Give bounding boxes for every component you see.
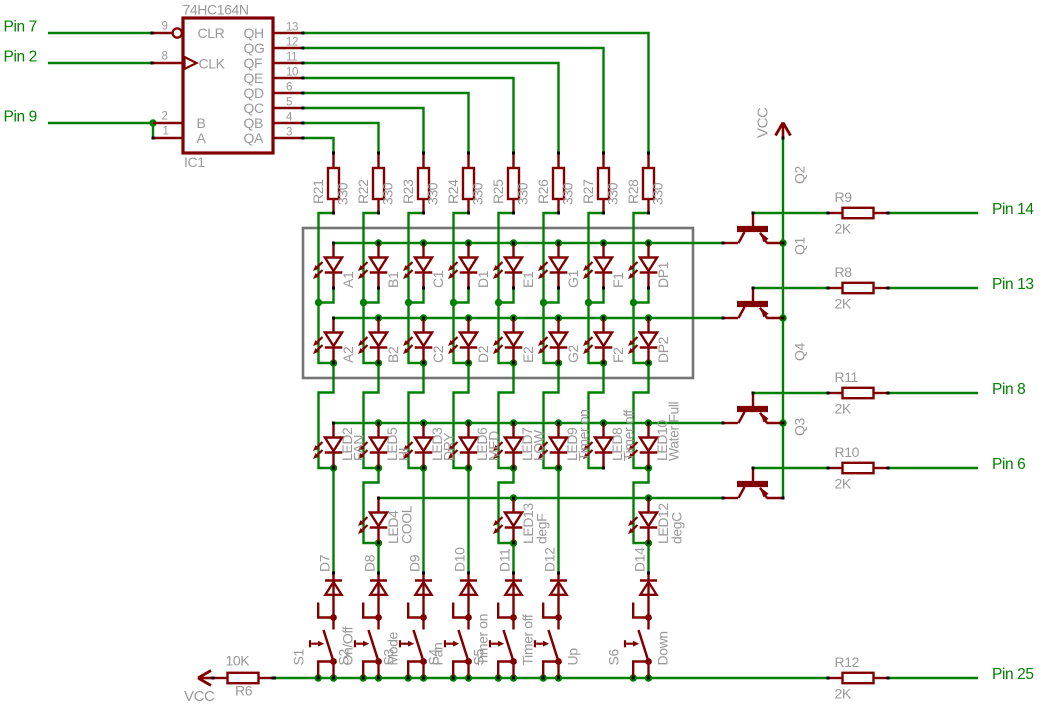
wire R25 to segment column 5: [499, 213, 514, 303]
svg-text:R26: R26: [535, 179, 551, 204]
diode D9: [415, 572, 432, 618]
LED LED5 HI: [358, 422, 387, 470]
junction segment column 5 at row4 cathode: [510, 539, 517, 546]
resistor R11: [827, 388, 890, 398]
svg-text:IC1: IC1: [184, 154, 205, 170]
wire base Q1 to R8: [753, 287, 828, 289]
wire segment column 6 row3 to diode: [557, 468, 559, 573]
svg-text:C2: C2: [430, 345, 446, 363]
wire B to A: [152, 123, 154, 138]
wire R10 to Pin 6: [888, 467, 978, 469]
junction rail at switch col2 right: [375, 674, 382, 681]
diode D11: [505, 572, 522, 618]
svg-text:A: A: [197, 130, 207, 146]
svg-text:R11: R11: [835, 369, 859, 385]
wire segment column 1 row2 to row3: [319, 363, 334, 468]
svg-text:A2: A2: [340, 346, 356, 363]
transistor Q1: [722, 287, 785, 320]
junction rail at switch col6 left: [540, 674, 547, 681]
svg-text:MED: MED: [486, 431, 502, 461]
LED LED8 Timer off: [583, 422, 612, 470]
wire segment column 3 row1 cathode jog: [409, 288, 424, 303]
junction segment column 8 at row4 cathode: [645, 539, 652, 546]
svg-text:DP1: DP1: [655, 261, 671, 288]
junction segment column 5 at row1: [495, 299, 502, 306]
svg-text:S4: S4: [426, 649, 442, 666]
svg-text:9: 9: [162, 21, 168, 33]
svg-text:S2: S2: [336, 649, 352, 666]
junction bus row1 at G1 anode: [555, 239, 562, 246]
wire R28 to segment column 8: [634, 213, 649, 303]
wire Pin7 to CLR: [48, 32, 153, 34]
svg-text:S3: S3: [381, 649, 397, 666]
svg-text:330: 330: [425, 182, 441, 205]
svg-text:CLK: CLK: [199, 56, 226, 72]
switch S4: [445, 603, 472, 680]
svg-text:S6: S6: [606, 649, 622, 666]
LED segment A1: [313, 242, 342, 290]
svg-text:R10: R10: [835, 444, 860, 460]
svg-text:R21: R21: [310, 179, 326, 204]
svg-text:Q2: Q2: [792, 166, 808, 184]
LED LED9 Timer on: [538, 422, 567, 470]
wire segment column 7 row1 to row2: [589, 303, 604, 364]
svg-text:QC: QC: [244, 100, 264, 116]
svg-text:D11: D11: [497, 548, 513, 572]
junction bus row1 at D1 anode: [465, 239, 472, 246]
LED segment F2: [583, 317, 612, 365]
svg-text:Water Full: Water Full: [666, 401, 682, 461]
junction segment column 4 at row2 cathode: [465, 359, 472, 366]
transistor Q3: [722, 467, 785, 500]
junction segment column 2 at row1: [360, 299, 367, 306]
svg-text:R22: R22: [355, 179, 371, 204]
wire QC to R23: [303, 108, 424, 153]
switch S1: [310, 603, 337, 680]
LED segment B2: [358, 317, 387, 365]
svg-text:A1: A1: [340, 271, 356, 288]
wire R21 to segment column 1: [319, 213, 334, 303]
node bus row4 anodes: [379, 497, 724, 499]
svg-text:D7: D7: [317, 554, 333, 572]
svg-text:13: 13: [286, 22, 298, 34]
svg-text:Pin 7: Pin 7: [4, 19, 37, 36]
junction bus row2 at E2 anode: [510, 314, 517, 321]
wire segment column 5 row3 to row4: [499, 468, 514, 543]
wire Pin9 to B: [48, 122, 153, 124]
LED segment C1: [403, 242, 432, 290]
junction segment column 5 at row3 cathode: [510, 464, 517, 471]
junction bus row2 at G2 anode: [555, 314, 562, 321]
LED segment DP1: [628, 242, 657, 290]
node bus row1 digit1 anodes: [334, 242, 724, 244]
resistor R6: [212, 673, 275, 683]
svg-text:R28: R28: [625, 179, 641, 204]
wire segment column 3 row2 to row3: [409, 363, 424, 468]
svg-text:D14: D14: [632, 547, 648, 572]
svg-text:DRY: DRY: [441, 432, 457, 461]
svg-text:G1: G1: [565, 270, 581, 288]
wire QB to R22: [303, 123, 379, 153]
wire segment column 3 row3 to diode: [422, 468, 424, 573]
LED LED13 degF: [493, 497, 522, 545]
node bus row3 anodes: [334, 422, 724, 424]
svg-text:FAN: FAN: [351, 435, 367, 461]
wire R22 to segment column 2: [364, 213, 379, 303]
resistor R21: [328, 152, 339, 215]
junction VCC rail at Q4 emitter: [779, 419, 786, 426]
junction rail at switch col5 left: [495, 674, 502, 681]
junction bus row2 at F2 anode: [600, 314, 607, 321]
wire segment column 8 row1 to row2: [634, 303, 649, 364]
svg-text:D12: D12: [542, 547, 558, 572]
resistor R28: [643, 152, 654, 215]
svg-text:330: 330: [560, 182, 576, 205]
svg-text:10K: 10K: [226, 653, 251, 669]
wire segment column 7 row1 cathode jog: [589, 288, 604, 303]
svg-text:QD: QD: [244, 85, 264, 101]
wire segment column 4 row1 to row2: [454, 303, 469, 364]
switch S5: [490, 603, 517, 680]
LED segment D1: [448, 242, 477, 290]
junction at pin B: [149, 119, 156, 126]
wire base Q4 to R11: [753, 392, 828, 394]
svg-text:LOW: LOW: [531, 429, 547, 461]
junction bus row2 at DP2 anode: [645, 314, 652, 321]
svg-text:2K: 2K: [835, 296, 852, 312]
svg-text:R6: R6: [235, 683, 253, 699]
svg-text:5: 5: [286, 97, 292, 109]
wire segment column 5 row4 to diode: [512, 543, 514, 573]
LED segment F1: [583, 242, 612, 290]
wire segment column 5 row2 to row3: [499, 363, 514, 468]
junction segment column 7 at row1: [585, 299, 592, 306]
svg-text:Pin 13: Pin 13: [992, 276, 1034, 293]
junction segment column 6 at row3 cathode: [555, 464, 562, 471]
svg-text:R24: R24: [445, 179, 461, 204]
power VCC left symbol: [198, 671, 213, 686]
junction bus row2 at D2 anode: [465, 314, 472, 321]
svg-text:330: 330: [515, 182, 531, 205]
diode D7: [325, 572, 342, 618]
svg-text:2: 2: [162, 111, 168, 123]
wire segment column 5 row1 to row2: [499, 303, 514, 364]
junction segment column 2 at row2 cathode: [375, 359, 382, 366]
wire QE to R25: [303, 78, 514, 153]
svg-text:VCC: VCC: [184, 688, 215, 705]
resistor R26: [553, 152, 564, 215]
junction segment column 3 at row2 cathode: [420, 359, 427, 366]
svg-text:Timer off: Timer off: [621, 410, 637, 461]
LED segment C2: [403, 317, 432, 365]
junction bus row3 at LED10 anode: [645, 419, 652, 426]
wire QA to R21: [303, 138, 334, 153]
svg-text:330: 330: [605, 182, 621, 205]
svg-text:QB: QB: [244, 115, 263, 131]
IC IC1 74HC164N shift register: [151, 18, 305, 153]
wire segment column 4 row1 cathode jog: [454, 288, 469, 303]
svg-text:2K: 2K: [835, 221, 852, 237]
wire segment column 6 row1 to row2: [544, 303, 559, 364]
junction bus row1 at C1 anode: [420, 239, 427, 246]
junction segment column 8 at row1: [630, 299, 637, 306]
wire segment column 5 row1 cathode jog: [499, 288, 514, 303]
svg-text:330: 330: [470, 182, 486, 205]
svg-text:Timer off: Timer off: [520, 614, 536, 665]
wire segment column 6 row2 to row3: [544, 363, 559, 468]
wire bottom rail: [273, 677, 828, 679]
svg-text:Pin 2: Pin 2: [4, 49, 37, 66]
svg-text:Pin 14: Pin 14: [992, 201, 1034, 218]
junction segment column 2 at row3 cathode: [375, 464, 382, 471]
junction rail at switch col6 right: [555, 674, 562, 681]
LED LED7 LOW: [493, 422, 522, 470]
LED segment G1: [538, 242, 567, 290]
resistor R10: [827, 463, 890, 473]
junction bus row1 at DP1 anode: [645, 239, 652, 246]
wire R24 to segment column 4: [454, 213, 469, 303]
svg-text:R27: R27: [580, 179, 596, 204]
wire QH to R28: [303, 33, 649, 153]
svg-text:11: 11: [286, 52, 297, 64]
junction segment column 5 at row2 cathode: [510, 359, 517, 366]
wire segment column 4 row2 to row3: [454, 363, 469, 468]
svg-text:QH: QH: [244, 25, 264, 41]
wire Pin2 to CLK: [48, 62, 153, 64]
resistor R22: [373, 152, 384, 215]
svg-text:S5: S5: [471, 649, 487, 666]
wire QF to R26: [303, 63, 559, 153]
wire R27 to segment column 7: [589, 213, 604, 303]
junction segment column 1 at row2 cathode: [330, 359, 337, 366]
wire R8 to Pin 13: [888, 287, 978, 289]
svg-text:R8: R8: [835, 264, 853, 280]
resistor R12: [827, 673, 890, 683]
junction bus row3 at LED7 anode: [510, 419, 517, 426]
junction segment column 4 at row1: [450, 299, 457, 306]
junction segment column 3 at row1: [405, 299, 412, 306]
junction rail at switch col1 right: [330, 674, 337, 681]
svg-text:330: 330: [650, 182, 666, 205]
junction VCC rail at Q2 emitter: [779, 239, 786, 246]
LED LED10 Water Full: [628, 422, 657, 470]
svg-text:8: 8: [162, 51, 168, 63]
svg-text:330: 330: [380, 182, 396, 205]
wire base Q3 to R10: [753, 467, 828, 469]
svg-text:74HC164N: 74HC164N: [183, 2, 249, 18]
wire segment column 4 row3 to diode: [467, 468, 469, 573]
junction rail at switch col4 left: [450, 674, 457, 681]
junction segment column 8 at row2 cathode: [645, 359, 652, 366]
svg-text:F2: F2: [610, 347, 626, 363]
junction segment column 3 at row3 cathode: [420, 464, 427, 471]
junction segment column 6 at row1: [540, 299, 547, 306]
svg-text:Pin 9: Pin 9: [4, 109, 37, 126]
wire segment column 6 row1 cathode jog: [544, 288, 559, 303]
diode D10: [460, 572, 477, 618]
wire segment column 2 row1 to row2: [364, 303, 379, 364]
svg-text:R9: R9: [835, 189, 853, 205]
svg-text:10: 10: [286, 67, 298, 79]
wire segment column 8 row2 to row3: [634, 363, 649, 468]
LED segment D2: [448, 317, 477, 365]
LED LED6 MED: [448, 422, 477, 470]
svg-text:degC: degC: [669, 512, 685, 544]
diode D14: [640, 572, 657, 618]
svg-text:R12: R12: [835, 654, 860, 670]
junction bus row2 at B2 anode: [375, 314, 382, 321]
junction rail at switch col2 left: [360, 674, 367, 681]
svg-text:Timer on: Timer on: [576, 409, 592, 461]
wire segment column 8 row4 to diode: [647, 543, 649, 573]
wire segment column 2 row3 to row4: [364, 468, 379, 543]
svg-text:QE: QE: [244, 70, 263, 86]
wire segment column 3 row1 to row2: [409, 303, 424, 364]
LED segment DP2: [628, 317, 657, 365]
junction segment column 2 at row4 cathode: [375, 539, 382, 546]
svg-text:B: B: [197, 115, 206, 131]
switch S2: [355, 603, 382, 680]
svg-text:12: 12: [286, 37, 298, 49]
svg-text:DP2: DP2: [655, 336, 671, 363]
junction bus row3 at LED3 anode: [420, 419, 427, 426]
svg-text:CLR: CLR: [198, 25, 225, 41]
svg-text:R25: R25: [490, 179, 506, 204]
switch S: [535, 603, 562, 680]
svg-text:QF: QF: [244, 55, 263, 71]
junction bus row1 at B1 anode: [375, 239, 382, 246]
svg-text:4: 4: [286, 112, 293, 124]
svg-text:2K: 2K: [835, 686, 852, 702]
LED segment E2: [493, 317, 522, 365]
wire segment column 2 row2 to row3: [364, 363, 379, 468]
diode D12: [550, 572, 567, 618]
wire segment column 2 row1 cathode jog: [364, 288, 379, 303]
transistor Q4: [722, 392, 785, 425]
wire segment column 1 row3 to diode: [332, 468, 334, 573]
wire R26 to segment column 6: [544, 213, 559, 303]
resistor R8: [827, 283, 890, 293]
svg-text:D10: D10: [452, 547, 468, 572]
svg-text:VCC: VCC: [755, 107, 772, 138]
junction bus row1 at F1 anode: [600, 239, 607, 246]
resistor R24: [463, 152, 474, 215]
LED LED3 DRY: [403, 422, 432, 470]
wire segment column 7 row2 to row3: [589, 363, 604, 468]
wire segment column 8 row3 to row4: [634, 468, 649, 543]
LED segment G2: [538, 317, 567, 365]
node bus row2 digit2 anodes: [334, 317, 724, 319]
wire segment column 8 row1 cathode jog: [634, 288, 649, 303]
resistor R9: [827, 208, 890, 218]
svg-text:Down: Down: [655, 631, 671, 665]
junction segment column 7 at row2 cathode: [600, 359, 607, 366]
diode D8: [370, 572, 387, 618]
svg-text:COOL: COOL: [399, 505, 415, 544]
junction rail at switch col5 right: [510, 674, 517, 681]
junction segment column 1 at row1: [315, 299, 322, 306]
svg-text:S1: S1: [291, 649, 307, 666]
svg-text:QA: QA: [244, 130, 264, 146]
svg-text:B2: B2: [385, 346, 401, 363]
svg-text:R23: R23: [400, 179, 416, 204]
svg-text:D1: D1: [475, 270, 491, 288]
LED LED12 degC: [628, 497, 657, 545]
display frame box: [303, 228, 693, 378]
LED segment B1: [358, 242, 387, 290]
svg-text:QG: QG: [244, 40, 265, 56]
resistor R25: [508, 152, 519, 215]
junction bus row4 at LED13 anode: [510, 494, 517, 501]
junction rail at switch col8 right: [645, 674, 652, 681]
svg-text:Up: Up: [565, 648, 581, 666]
svg-text:D2: D2: [475, 345, 491, 363]
junction bus row1 at E1 anode: [510, 239, 517, 246]
junction bus row3 at LED9 anode: [555, 419, 562, 426]
LED segment E1: [493, 242, 522, 290]
svg-text:2K: 2K: [835, 401, 852, 417]
LED LED4 COOL: [358, 497, 387, 545]
svg-text:C1: C1: [430, 270, 446, 288]
svg-text:Q3: Q3: [792, 418, 808, 436]
junction bus row3 at LED8 anode: [600, 419, 607, 426]
svg-text:330: 330: [335, 182, 351, 205]
junction rail at switch col1 left: [315, 674, 322, 681]
junction rail at switch col4 right: [465, 674, 472, 681]
junction segment column 4 at row3 cathode: [465, 464, 472, 471]
LED LED2 FAN: [313, 422, 342, 470]
resistor R23: [418, 152, 429, 215]
wire QG to R27: [303, 48, 604, 153]
junction bus row3 at LED6 anode: [465, 419, 472, 426]
svg-text:G2: G2: [565, 345, 581, 363]
svg-text:E1: E1: [520, 271, 536, 288]
svg-text:1: 1: [163, 126, 169, 138]
junction rail at switch col3 right: [420, 674, 427, 681]
svg-text:2K: 2K: [835, 476, 852, 492]
wire segment column 1 row1 to row2: [319, 303, 334, 364]
svg-text:HI: HI: [396, 448, 412, 461]
wire R23 to segment column 3: [409, 213, 424, 303]
wire R9 to Pin 14: [888, 212, 978, 214]
wire segment column 1 row1 cathode jog: [319, 288, 334, 303]
svg-text:degF: degF: [534, 514, 550, 544]
junction segment column 1 at row3 cathode: [330, 464, 337, 471]
svg-text:D8: D8: [362, 554, 378, 572]
transistor Q2: [722, 212, 785, 245]
wire R11 to Pin 8: [888, 392, 978, 394]
switch S3: [400, 603, 427, 680]
svg-text:Pin 6: Pin 6: [992, 456, 1025, 473]
svg-text:D9: D9: [407, 554, 423, 572]
junction segment column 6 at row2 cathode: [555, 359, 562, 366]
wire VCC rail: [782, 138, 784, 498]
wire QD to R24: [303, 93, 469, 153]
junction bus row4 at LED12 anode: [645, 494, 652, 501]
power VCC top symbol: [776, 123, 791, 140]
wire segment column 2 row4 to diode: [377, 543, 379, 573]
resistor R27: [598, 152, 609, 215]
wire base Q2 to R9: [753, 212, 828, 214]
junction bus row3 at LED5 anode: [375, 419, 382, 426]
switch S6: [625, 603, 652, 680]
svg-text:Pin 25: Pin 25: [992, 666, 1034, 683]
junction segment column 8 at row3 cathode: [645, 464, 652, 471]
wire R12 to Pin25: [888, 677, 978, 679]
svg-text:B1: B1: [385, 271, 401, 288]
junction rail at switch col3 left: [405, 674, 412, 681]
junction rail at switch col8 left: [630, 674, 637, 681]
